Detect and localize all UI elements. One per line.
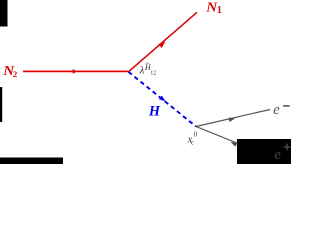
svg-text:2: 2 bbox=[13, 69, 18, 79]
wire: Higgs propagator (blue dashed) bbox=[128, 72, 196, 127]
wire: incoming N2 red fermion line bbox=[23, 70, 128, 72]
svg-text:c: c bbox=[191, 139, 194, 146]
svg-text:1: 1 bbox=[217, 5, 222, 16]
wire: outgoing N1 red fermion line bbox=[128, 12, 197, 72]
black screenshot patch bottom-right bbox=[237, 139, 291, 164]
vertex label lambda^H~_12 at main vertex bbox=[139, 60, 157, 76]
svg-text:H: H bbox=[148, 103, 161, 119]
wire: positron line to e+ bbox=[196, 127, 269, 157]
superscript minus of e- bbox=[283, 105, 290, 107]
black screenshot patch bottom-left bbox=[0, 158, 63, 165]
svg-text:e: e bbox=[273, 102, 280, 118]
vertex label lambda~^s_c at H-ee vertex bbox=[187, 132, 198, 147]
svg-text:12: 12 bbox=[150, 69, 156, 76]
arrow on e+ line (points back toward vertex) bbox=[231, 142, 238, 147]
arrow on N2 line bbox=[73, 69, 77, 74]
black screenshot patch top-left bbox=[0, 0, 8, 27]
arrow on e- line bbox=[229, 118, 235, 123]
black screenshot patch left edge bbox=[0, 87, 2, 122]
svg-text:e: e bbox=[274, 147, 281, 163]
superscript plus of e+ bbox=[284, 144, 291, 151]
arrow on Higgs line bbox=[159, 96, 165, 102]
svg-text:0: 0 bbox=[194, 132, 198, 139]
wire: electron line to e- bbox=[196, 110, 270, 127]
svg-text:λ: λ bbox=[139, 64, 145, 76]
arrow on N1 line bbox=[158, 42, 165, 49]
svg-text:~: ~ bbox=[146, 60, 150, 68]
